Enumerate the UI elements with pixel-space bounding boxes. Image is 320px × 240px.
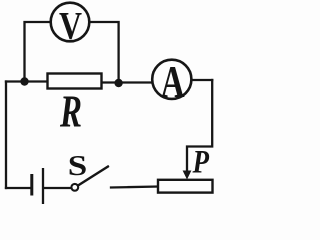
battery cell: short plate (negative) [30,174,33,196]
wire right vertical down with jog to rheostat wiper [187,80,212,173]
voltmeter U-V [51,3,90,42]
svg-text:A: A [161,57,185,107]
battery cell: long plate (positive) [42,168,44,204]
rheostat wiper arrowhead [183,171,192,180]
wire resistor row middle (between resistor and ammeter) [102,81,152,83]
wire voltmeter branch right: V to right then down to junction [91,22,119,83]
wire voltmeter branch left: junction up and right to V [25,22,51,82]
wire bottom left to battery [6,187,31,189]
node junction left (voltmeter/resistor) [20,77,28,85]
switch S blade [78,167,108,186]
resistor R1 body [48,74,102,89]
switch S pivot [71,184,78,191]
ammeter U-A [152,60,191,99]
wire battery to switch [44,187,71,189]
svg-text:P: P [192,145,210,181]
rheostat P body [158,180,213,193]
wire switch to rheostat [111,187,158,188]
wire left outer vertical [5,82,7,189]
node junction right (voltmeter/ammeter) [114,79,122,87]
svg-text:R: R [59,86,82,137]
wire resistor row left [6,80,48,82]
svg-text:S: S [68,150,88,182]
svg-text:V: V [59,5,82,48]
wire ammeter to top-right corner [192,79,212,81]
